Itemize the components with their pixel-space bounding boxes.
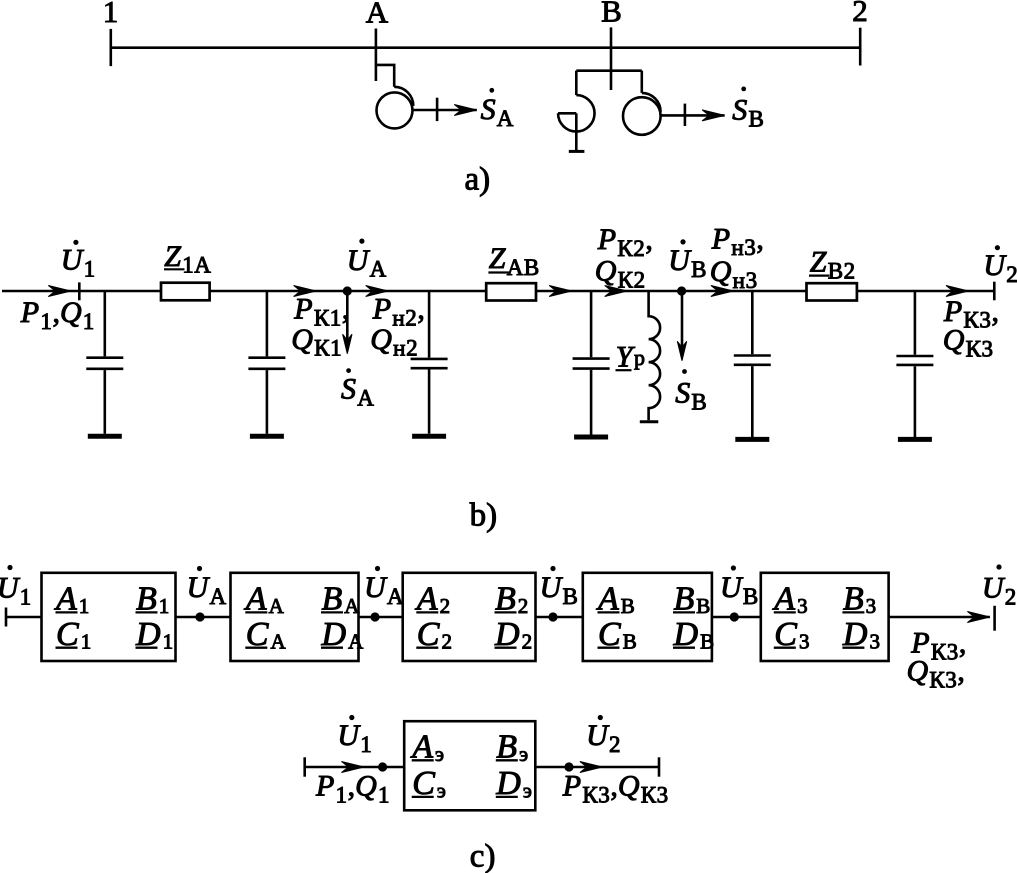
svg-text:р: р xyxy=(634,345,645,370)
svg-text:U1: U1 xyxy=(337,719,372,757)
svg-text:U2: U2 xyxy=(983,249,1017,287)
svg-text:P1,Q1: P1,Q1 xyxy=(315,770,390,808)
svg-text:UА: UА xyxy=(347,244,387,282)
svg-text:Z1А: Z1А xyxy=(164,240,211,278)
svg-text:b): b) xyxy=(470,498,498,534)
svg-text:ZВ2: ZВ2 xyxy=(810,246,856,284)
svg-text:UВ: UВ xyxy=(668,244,707,282)
svg-text:UВ: UВ xyxy=(720,571,759,609)
svg-text:P1,Q1: P1,Q1 xyxy=(20,296,95,334)
svg-text:c): c) xyxy=(470,839,496,873)
svg-text:PК3,QК3: PК3,QК3 xyxy=(562,770,669,808)
svg-text:UВ: UВ xyxy=(540,571,579,609)
svg-text:a): a) xyxy=(465,162,491,198)
svg-text:Qн3: Qн3 xyxy=(710,255,758,293)
svg-text:ZАВ: ZАВ xyxy=(489,242,540,280)
svg-text:B: B xyxy=(601,0,622,29)
svg-text:U2: U2 xyxy=(586,719,621,757)
svg-text:U2: U2 xyxy=(982,572,1017,610)
svg-text:U1: U1 xyxy=(0,572,32,610)
svg-text:SВ: SВ xyxy=(675,377,707,415)
svg-text:A: A xyxy=(366,0,389,30)
svg-text:SB: SB xyxy=(732,94,764,132)
svg-text:UА: UА xyxy=(187,571,227,609)
svg-text:1: 1 xyxy=(103,0,119,29)
svg-text:Y: Y xyxy=(616,341,636,374)
svg-text:SA: SA xyxy=(481,93,514,131)
svg-text:UА: UА xyxy=(364,571,404,609)
svg-text:SA: SA xyxy=(341,373,374,411)
svg-text:U1: U1 xyxy=(61,244,96,282)
svg-text:2: 2 xyxy=(852,0,868,28)
